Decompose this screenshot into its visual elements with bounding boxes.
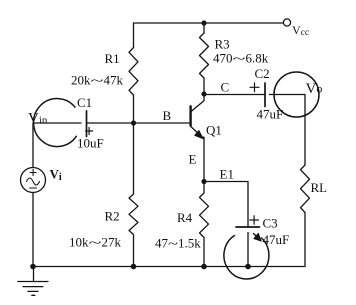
wire node E1 to C3 corner bbox=[204, 182, 248, 228]
label C3 value bbox=[263, 232, 290, 247]
svg-text:R3: R3 bbox=[215, 37, 230, 52]
wire R1 top vertical bbox=[133, 23, 135, 48]
label source Vi bbox=[50, 167, 62, 184]
label R2 value bbox=[69, 235, 122, 250]
svg-text:Vo: Vo bbox=[306, 81, 323, 97]
label Q1 bbox=[206, 123, 222, 138]
label C1 value bbox=[77, 136, 104, 151]
svg-text:E: E bbox=[189, 152, 197, 167]
junction dot ground rail C3 bbox=[245, 264, 251, 270]
svg-text:B: B bbox=[163, 108, 172, 123]
label R4 value bbox=[155, 236, 201, 251]
resistor R1 bbox=[129, 48, 138, 96]
svg-text:C: C bbox=[221, 80, 230, 95]
svg-text:10k~27k: 10k~27k bbox=[69, 235, 122, 250]
capacitor C1 plate bbox=[86, 111, 88, 137]
transistor Q1 collector lead bbox=[191, 94, 204, 112]
source Vi minus sign bbox=[30, 187, 37, 189]
svg-text:E1: E1 bbox=[220, 167, 234, 182]
label R4 bbox=[177, 210, 193, 225]
svg-text:47~1.5k: 47~1.5k bbox=[155, 236, 201, 251]
svg-text:47uF: 47uF bbox=[263, 232, 290, 247]
resistor R2 bbox=[129, 194, 138, 235]
capacitor C2 plus sign bbox=[250, 83, 259, 92]
junction dot node B bbox=[131, 120, 136, 125]
wire input down to source Vi bbox=[32, 123, 34, 168]
wire top rail bbox=[134, 22, 284, 24]
label node B bbox=[163, 108, 172, 123]
label R1 bbox=[105, 51, 120, 66]
wire emitter down to node E1 bbox=[203, 137, 205, 182]
wire output corner down to RL bbox=[304, 95, 306, 166]
junction dot node E1 bbox=[201, 179, 206, 184]
label C3 bbox=[263, 216, 278, 231]
capacitor C3 plate bbox=[236, 226, 260, 228]
power terminal Vcc bbox=[283, 19, 290, 26]
source Vi sine symbol bbox=[27, 178, 40, 185]
transistor Q1 base bar bbox=[189, 106, 191, 125]
source Vi plus sign bbox=[30, 169, 36, 175]
svg-text:R1: R1 bbox=[105, 51, 120, 66]
junction dot ground rail R4 bbox=[201, 264, 207, 270]
svg-text:470~6.8k: 470~6.8k bbox=[213, 51, 269, 66]
label RL bbox=[311, 180, 328, 195]
source Vi circle bbox=[21, 168, 46, 193]
svg-text:R2: R2 bbox=[105, 209, 120, 224]
label C2 bbox=[255, 66, 270, 81]
label Vo bbox=[306, 81, 323, 97]
svg-text:RL: RL bbox=[311, 180, 328, 195]
wire ground rail bbox=[33, 266, 248, 268]
resistor R3 bbox=[200, 33, 209, 78]
wire RL bottom to ground rail bbox=[248, 213, 305, 267]
svg-text:10uF: 10uF bbox=[77, 136, 104, 151]
label node C bbox=[221, 80, 230, 95]
ground bbox=[18, 267, 48, 296]
svg-text:Q1: Q1 bbox=[206, 123, 222, 138]
label Vin bbox=[28, 111, 48, 127]
wire R3 bottom to node C bbox=[203, 78, 205, 94]
wire C2 to output corner bbox=[270, 94, 306, 96]
junction dot top rail R3 bbox=[201, 20, 206, 25]
label Vcc bbox=[292, 23, 309, 38]
svg-text:20k~47k: 20k~47k bbox=[71, 73, 124, 88]
label node E bbox=[189, 152, 197, 167]
wire source Vi to ground rail bbox=[32, 193, 34, 267]
capacitor C1 plus sign bbox=[86, 128, 93, 135]
wire R2 bottom to ground rail bbox=[133, 235, 135, 267]
wire C1 to base bbox=[87, 122, 191, 124]
label R1 value bbox=[71, 73, 124, 88]
label C1 bbox=[77, 95, 92, 110]
svg-text:C2: C2 bbox=[255, 66, 270, 81]
svg-text:R4: R4 bbox=[177, 210, 193, 225]
capacitor C3 plus sign bbox=[250, 216, 259, 225]
label C2 value bbox=[257, 107, 284, 122]
resistor R4 bbox=[200, 182, 209, 267]
junction dot ground rail Vi bbox=[30, 264, 36, 270]
wire R1 bottom to node B bbox=[133, 95, 135, 123]
annotation circle C3 bbox=[224, 233, 269, 279]
annotation circle Vin bbox=[34, 99, 77, 147]
svg-text:47uF: 47uF bbox=[257, 107, 284, 122]
wire R3 top vertical bbox=[203, 23, 205, 33]
wire node C to C2 bbox=[204, 94, 265, 96]
capacitor C2 plate bbox=[264, 83, 266, 107]
label R3 bbox=[215, 37, 230, 52]
junction dot node C bbox=[201, 91, 206, 96]
label R3 value bbox=[213, 51, 269, 66]
transistor Q1 emitter lead with arrow bbox=[191, 126, 204, 138]
junction dot ground rail R2 bbox=[131, 264, 137, 270]
label node E1 bbox=[220, 167, 234, 182]
resistor RL bbox=[301, 165, 310, 213]
annotation circle Vo bbox=[274, 72, 319, 117]
svg-text:C1: C1 bbox=[77, 95, 92, 110]
wire node B to R2 top bbox=[133, 123, 135, 194]
wire C3 to ground rail bbox=[247, 233, 249, 267]
label R2 bbox=[105, 209, 120, 224]
svg-text:C3: C3 bbox=[263, 216, 278, 231]
wire input corner to C1 bbox=[33, 122, 81, 124]
